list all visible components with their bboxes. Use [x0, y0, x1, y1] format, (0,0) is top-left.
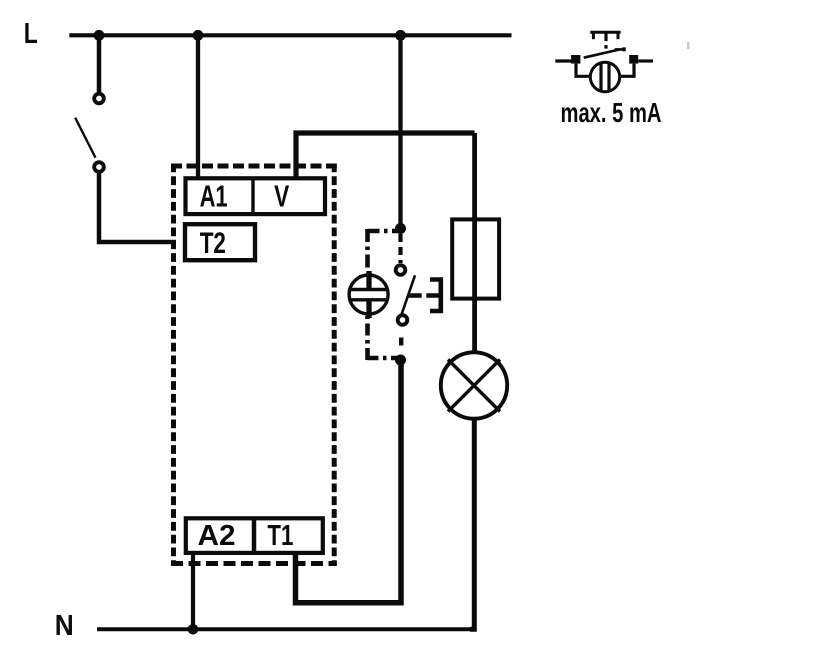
wire N rail	[97, 627, 474, 631]
wire push-button bottom to T1	[296, 360, 402, 603]
wire through fuse F1	[472, 133, 477, 354]
wire lamp branch to bottom junction (dash-dot bottom)	[368, 316, 399, 360]
wire junction to push-button contact (dashed)	[398, 234, 402, 263]
push-button S2 actuator bracket	[430, 280, 441, 312]
svg-text:V: V	[274, 180, 290, 214]
junction on L rail to push-button	[395, 30, 406, 41]
terminal block A2 / T1 box	[186, 518, 323, 553]
terminal block A1 / V box	[186, 178, 326, 215]
push-button S2 actuator linkage (dashed)	[408, 293, 439, 297]
push-button S2 lower contact	[398, 315, 408, 325]
wire switch S1 to T2	[99, 174, 176, 243]
wire L rail to switch S1	[97, 35, 102, 92]
illuminated push-button legend neon lamp	[590, 62, 619, 91]
wire lower contact to bottom junction (dashed)	[399, 338, 403, 346]
switch S1 upper contact	[94, 94, 104, 104]
junction push-button bottom	[395, 355, 406, 366]
svg-text:N: N	[55, 610, 74, 642]
wire junction to lamp branch (dash-dot top)	[368, 229, 399, 272]
junction on L rail to A1	[193, 30, 204, 41]
push-button S2 blade	[402, 275, 416, 314]
svg-text:max. 5 mA: max. 5 mA	[561, 97, 662, 128]
illuminated push-button legend neon electrodes	[601, 64, 609, 90]
neon lamp E1 of push-button circle	[349, 275, 388, 314]
junction A2 on N rail	[188, 624, 199, 635]
svg-text:A2: A2	[198, 520, 236, 552]
wire A2 to N rail	[191, 555, 195, 629]
wire L rail to push-button top	[398, 35, 402, 226]
lamp H1 cross	[448, 360, 500, 412]
switch S1 lower contact	[94, 162, 104, 172]
illuminated push-button legend right terminal	[629, 55, 638, 64]
illuminated push-button legend left terminal	[571, 55, 580, 64]
push-button S2 upper contact	[396, 265, 406, 275]
switch S1 blade	[75, 118, 95, 158]
neon lamp E1 electrodes	[351, 271, 387, 318]
svg-text:T1: T1	[267, 520, 293, 552]
junction push-button top	[395, 223, 406, 234]
illuminated push-button legend lamp wires	[576, 64, 634, 77]
fuse F1	[452, 219, 499, 298]
illuminated push-button legend blade	[584, 47, 626, 57]
illuminated push-button legend left lead	[555, 59, 571, 62]
svg-text:L: L	[24, 18, 38, 50]
dashed enclosure of timer module	[171, 164, 337, 567]
illuminated push-button legend right lead	[638, 59, 653, 62]
stray print artifact	[687, 42, 690, 49]
wire lamp to N rail	[470, 419, 474, 630]
lamp H1 circle	[441, 352, 507, 418]
junction on L rail to switch S1	[94, 30, 105, 41]
svg-text:T2: T2	[200, 227, 226, 260]
svg-text:A1: A1	[200, 180, 228, 214]
wire L rail	[69, 33, 511, 37]
terminal T2 box	[185, 224, 255, 260]
illuminated push-button legend actuator	[590, 32, 620, 41]
wire V to fuse (top link)	[296, 133, 475, 178]
illuminated push-button legend linkage (dash)	[604, 45, 607, 49]
wire L rail to A1	[196, 35, 200, 178]
